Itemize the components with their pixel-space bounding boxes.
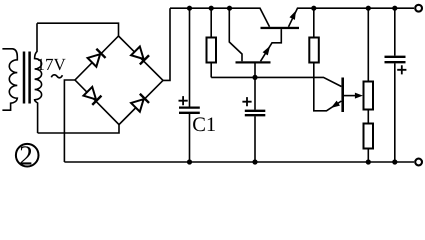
svg-text:2: 2 [19, 140, 33, 171]
svg-text:17V: 17V [37, 55, 67, 74]
svg-text:C1: C1 [192, 114, 216, 136]
